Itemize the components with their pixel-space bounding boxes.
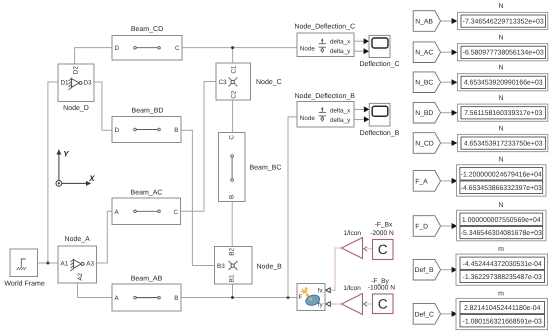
svg-text:D3: D3: [83, 79, 92, 86]
block World Frame: [4, 249, 44, 287]
wire Node_D D3 to Beam_BD D: [94, 82, 112, 130]
wire Beam_AB B to force block F: [181, 297, 297, 299]
svg-text:delta_x: delta_x: [330, 38, 351, 45]
svg-text:-7.346546229713352e+03: -7.346546229713352e+03: [463, 19, 544, 26]
wire Node_Deflection_B delta_x to Deflection_B scope: [354, 106, 369, 112]
wire World Frame to Node_A A1: [38, 262, 59, 264]
from tag Def_B: [413, 259, 440, 280]
svg-text:A2: A2: [77, 272, 84, 280]
from tag N_AB: [413, 11, 440, 32]
wire node B net up to Node_Deflection_B Node: [288, 117, 297, 298]
wire constant C1 to gain 1/lcon 1: [364, 247, 373, 251]
svg-text:C: C: [378, 242, 388, 257]
wire Beam_BD B to Node_B B3: [181, 130, 215, 265]
svg-text:N: N: [498, 65, 503, 72]
from tag F_D: [413, 216, 440, 237]
gain 1/lcon 1: [342, 230, 363, 258]
from tag Def_C: [413, 304, 440, 325]
svg-text:N_BD: N_BD: [415, 110, 433, 117]
wire Def_C to display: [441, 311, 458, 317]
display N_CD: [458, 126, 548, 152]
display N_AC: [458, 35, 548, 61]
svg-text:B3: B3: [217, 263, 225, 270]
block Node_B: [215, 247, 283, 285]
svg-text:A1: A1: [61, 260, 69, 267]
svg-text:N: N: [498, 95, 503, 102]
block external force (F fx fy): [297, 284, 325, 311]
wire Def_B to display: [441, 267, 458, 273]
wire gain 2 to force fy input: [326, 302, 342, 307]
display Def_B: [456, 246, 548, 285]
display F_A: [457, 156, 547, 196]
block Deflection_B scope: [360, 103, 400, 137]
wire F_A to display: [441, 178, 458, 184]
svg-text:Node_C: Node_C: [256, 78, 282, 86]
svg-text:Y: Y: [63, 149, 69, 158]
svg-text:-1.362297388235487e-03: -1.362297388235487e-03: [463, 274, 542, 281]
svg-text:N: N: [498, 202, 503, 209]
svg-text:Beam_AC: Beam_AC: [131, 190, 163, 197]
svg-text:F: F: [299, 294, 303, 301]
svg-text:World Frame: World Frame: [4, 279, 44, 287]
gain 1/lcon 2: [342, 285, 363, 314]
wire gain 1 to force fx input: [326, 248, 342, 293]
wire Node_C C3 to Beam_AC C: [181, 82, 217, 212]
block Node_Deflection_C subsystem: [294, 23, 355, 57]
wire Beam_BC B to Node_B B2: [231, 202, 233, 247]
wire Node_B B1 down to node B net: [232, 284, 234, 298]
svg-text:A3: A3: [86, 260, 94, 267]
svg-text:Node_D: Node_D: [63, 104, 89, 112]
svg-text:delta_y: delta_y: [330, 48, 351, 55]
svg-text:N_BC: N_BC: [415, 80, 433, 87]
svg-text:-4.452444372030531e-04: -4.452444372030531e-04: [463, 261, 542, 268]
svg-text:Def_B: Def_B: [415, 267, 434, 274]
axes orientation icon X Y: [56, 149, 95, 186]
svg-text:C: C: [228, 135, 235, 140]
display N_BC: [458, 65, 548, 91]
from tag F_A: [413, 171, 440, 192]
wire Node_D D1 down to node A net: [48, 82, 58, 263]
svg-text:N: N: [498, 3, 503, 10]
svg-text:-2000 N: -2000 N: [370, 230, 394, 237]
from tag N_AC: [413, 42, 440, 63]
svg-text:Node: Node: [300, 115, 316, 122]
block Node_C: [216, 63, 282, 100]
svg-text:Beam_CD: Beam_CD: [131, 26, 163, 33]
svg-text:-10000 N: -10000 N: [368, 285, 395, 292]
svg-text:B: B: [174, 295, 178, 302]
block Beam_BD: [112, 108, 181, 143]
svg-text:D1: D1: [61, 79, 70, 86]
wire N_BC to display: [441, 79, 458, 85]
display N_BD: [458, 95, 548, 121]
svg-text:Beam_BC: Beam_BC: [250, 165, 282, 172]
svg-text:X: X: [88, 174, 95, 183]
wire Node_Deflection_C delta_x to Deflection_C scope: [354, 38, 369, 44]
wire Node_Deflection_C delta_y to Deflection_C scope: [354, 48, 369, 54]
svg-text:Node: Node: [300, 45, 316, 52]
svg-text:C: C: [173, 209, 178, 216]
svg-text:-F_Bx: -F_Bx: [375, 221, 393, 228]
node junction dot B2: [287, 296, 290, 299]
svg-text:D: D: [115, 45, 120, 52]
block Beam_AB: [112, 276, 181, 312]
constant C2: [368, 278, 395, 313]
wire N_AC to display: [441, 49, 458, 55]
svg-text:C3: C3: [219, 79, 228, 86]
from tag N_CD: [413, 133, 440, 154]
wire Node_Deflection_B delta_y to Deflection_B scope: [354, 116, 369, 122]
wire N_AB to display: [441, 18, 458, 24]
svg-text:1/lcon: 1/lcon: [343, 285, 361, 292]
wire constant C2 to gain 1/lcon 2: [364, 302, 373, 306]
svg-text:N_AB: N_AB: [415, 18, 433, 25]
svg-text:m: m: [498, 246, 504, 253]
svg-text:N: N: [498, 35, 503, 42]
display N_AB: [458, 3, 548, 29]
svg-text:D: D: [115, 127, 120, 134]
svg-text:C: C: [378, 297, 388, 312]
from tag N_BC: [413, 72, 440, 93]
svg-text:-1.080156321668591e-03: -1.080156321668591e-03: [463, 318, 542, 325]
block Node_Deflection_B subsystem: [295, 92, 356, 127]
svg-text:Beam_AB: Beam_AB: [131, 276, 163, 283]
wire F_D to display: [441, 223, 458, 229]
wire Node_C C2 to Beam_BC C: [232, 100, 234, 133]
svg-text:fx: fx: [318, 287, 324, 294]
svg-text:-1.200000024679416e+04: -1.200000024679416e+04: [461, 171, 542, 178]
display Def_C: [456, 291, 548, 330]
wire Node_A A3 to Beam_AC A: [97, 211, 113, 263]
svg-text:-5.346546304081678e+03: -5.346546304081678e+03: [461, 230, 542, 237]
block Beam_AC: [112, 190, 181, 225]
svg-text:N: N: [498, 126, 503, 133]
svg-text:C: C: [175, 45, 180, 52]
svg-text:Deflection_C: Deflection_C: [359, 60, 399, 68]
block Beam_BC vertical: [219, 133, 282, 202]
svg-text:B: B: [228, 195, 235, 199]
node junction dot A: [46, 262, 49, 265]
svg-text:F_D: F_D: [415, 223, 428, 230]
svg-text:7.561158160339317e+03: 7.561158160339317e+03: [464, 110, 542, 117]
svg-text:Deflection_B: Deflection_B: [360, 129, 400, 137]
svg-text:m: m: [498, 291, 504, 298]
svg-text:4.653453917233750e+03: 4.653453917233750e+03: [464, 141, 543, 148]
wire N_BD to display: [441, 110, 458, 116]
wire junction C down to Node_C C1: [232, 48, 234, 63]
svg-text:F_A: F_A: [415, 178, 428, 185]
svg-text:B: B: [174, 127, 178, 134]
svg-text:N: N: [498, 156, 503, 163]
block Deflection_C scope: [359, 35, 399, 68]
wire N_CD to display: [441, 140, 458, 146]
svg-text:2.821410452441180e-04: 2.821410452441180e-04: [464, 305, 541, 312]
node junction dot C: [231, 46, 234, 49]
display F_D: [457, 202, 547, 241]
svg-text:Node_Deflection_B: Node_Deflection_B: [295, 92, 356, 100]
svg-text:Node_A: Node_A: [65, 235, 91, 243]
svg-text:D2: D2: [72, 66, 79, 75]
block Beam_CD: [112, 26, 182, 60]
svg-text:N_AC: N_AC: [415, 50, 433, 57]
svg-text:1.000000007550569e+04: 1.000000007550569e+04: [462, 217, 541, 224]
node junction dot B1: [231, 296, 234, 299]
from tag N_BD: [413, 102, 440, 123]
svg-text:4.653453920990166e+03: 4.653453920990166e+03: [464, 80, 543, 87]
svg-text:B2: B2: [229, 248, 236, 256]
svg-text:C2: C2: [230, 90, 237, 99]
svg-text:-6.580977738056134e+03: -6.580977738056134e+03: [463, 50, 544, 57]
svg-text:Node_B: Node_B: [257, 263, 283, 271]
block Node_D: [58, 64, 94, 112]
wire Beam_CD C to Node_Deflection_C Node: [182, 47, 297, 49]
constant C1: [370, 221, 394, 259]
svg-text:delta_y: delta_y: [330, 117, 351, 124]
svg-text:B1: B1: [229, 274, 236, 282]
svg-text:fy: fy: [318, 302, 324, 309]
svg-text:Def_C: Def_C: [415, 311, 434, 318]
svg-text:1/lcon: 1/lcon: [343, 230, 361, 237]
svg-text:-4.653453866332397e+03: -4.653453866332397e+03: [461, 185, 542, 192]
svg-text:delta_x: delta_x: [330, 107, 351, 114]
wire Beam_CD D to Node_D D2: [75, 48, 112, 64]
wire Node_A A2 to Beam_AB A: [78, 283, 113, 298]
svg-text:Node_Deflection_C: Node_Deflection_C: [294, 23, 355, 31]
svg-text:Beam_BD: Beam_BD: [132, 108, 164, 115]
svg-text:N_CD: N_CD: [415, 140, 434, 147]
block Node_A: [58, 235, 97, 283]
svg-text:C1: C1: [230, 65, 237, 74]
